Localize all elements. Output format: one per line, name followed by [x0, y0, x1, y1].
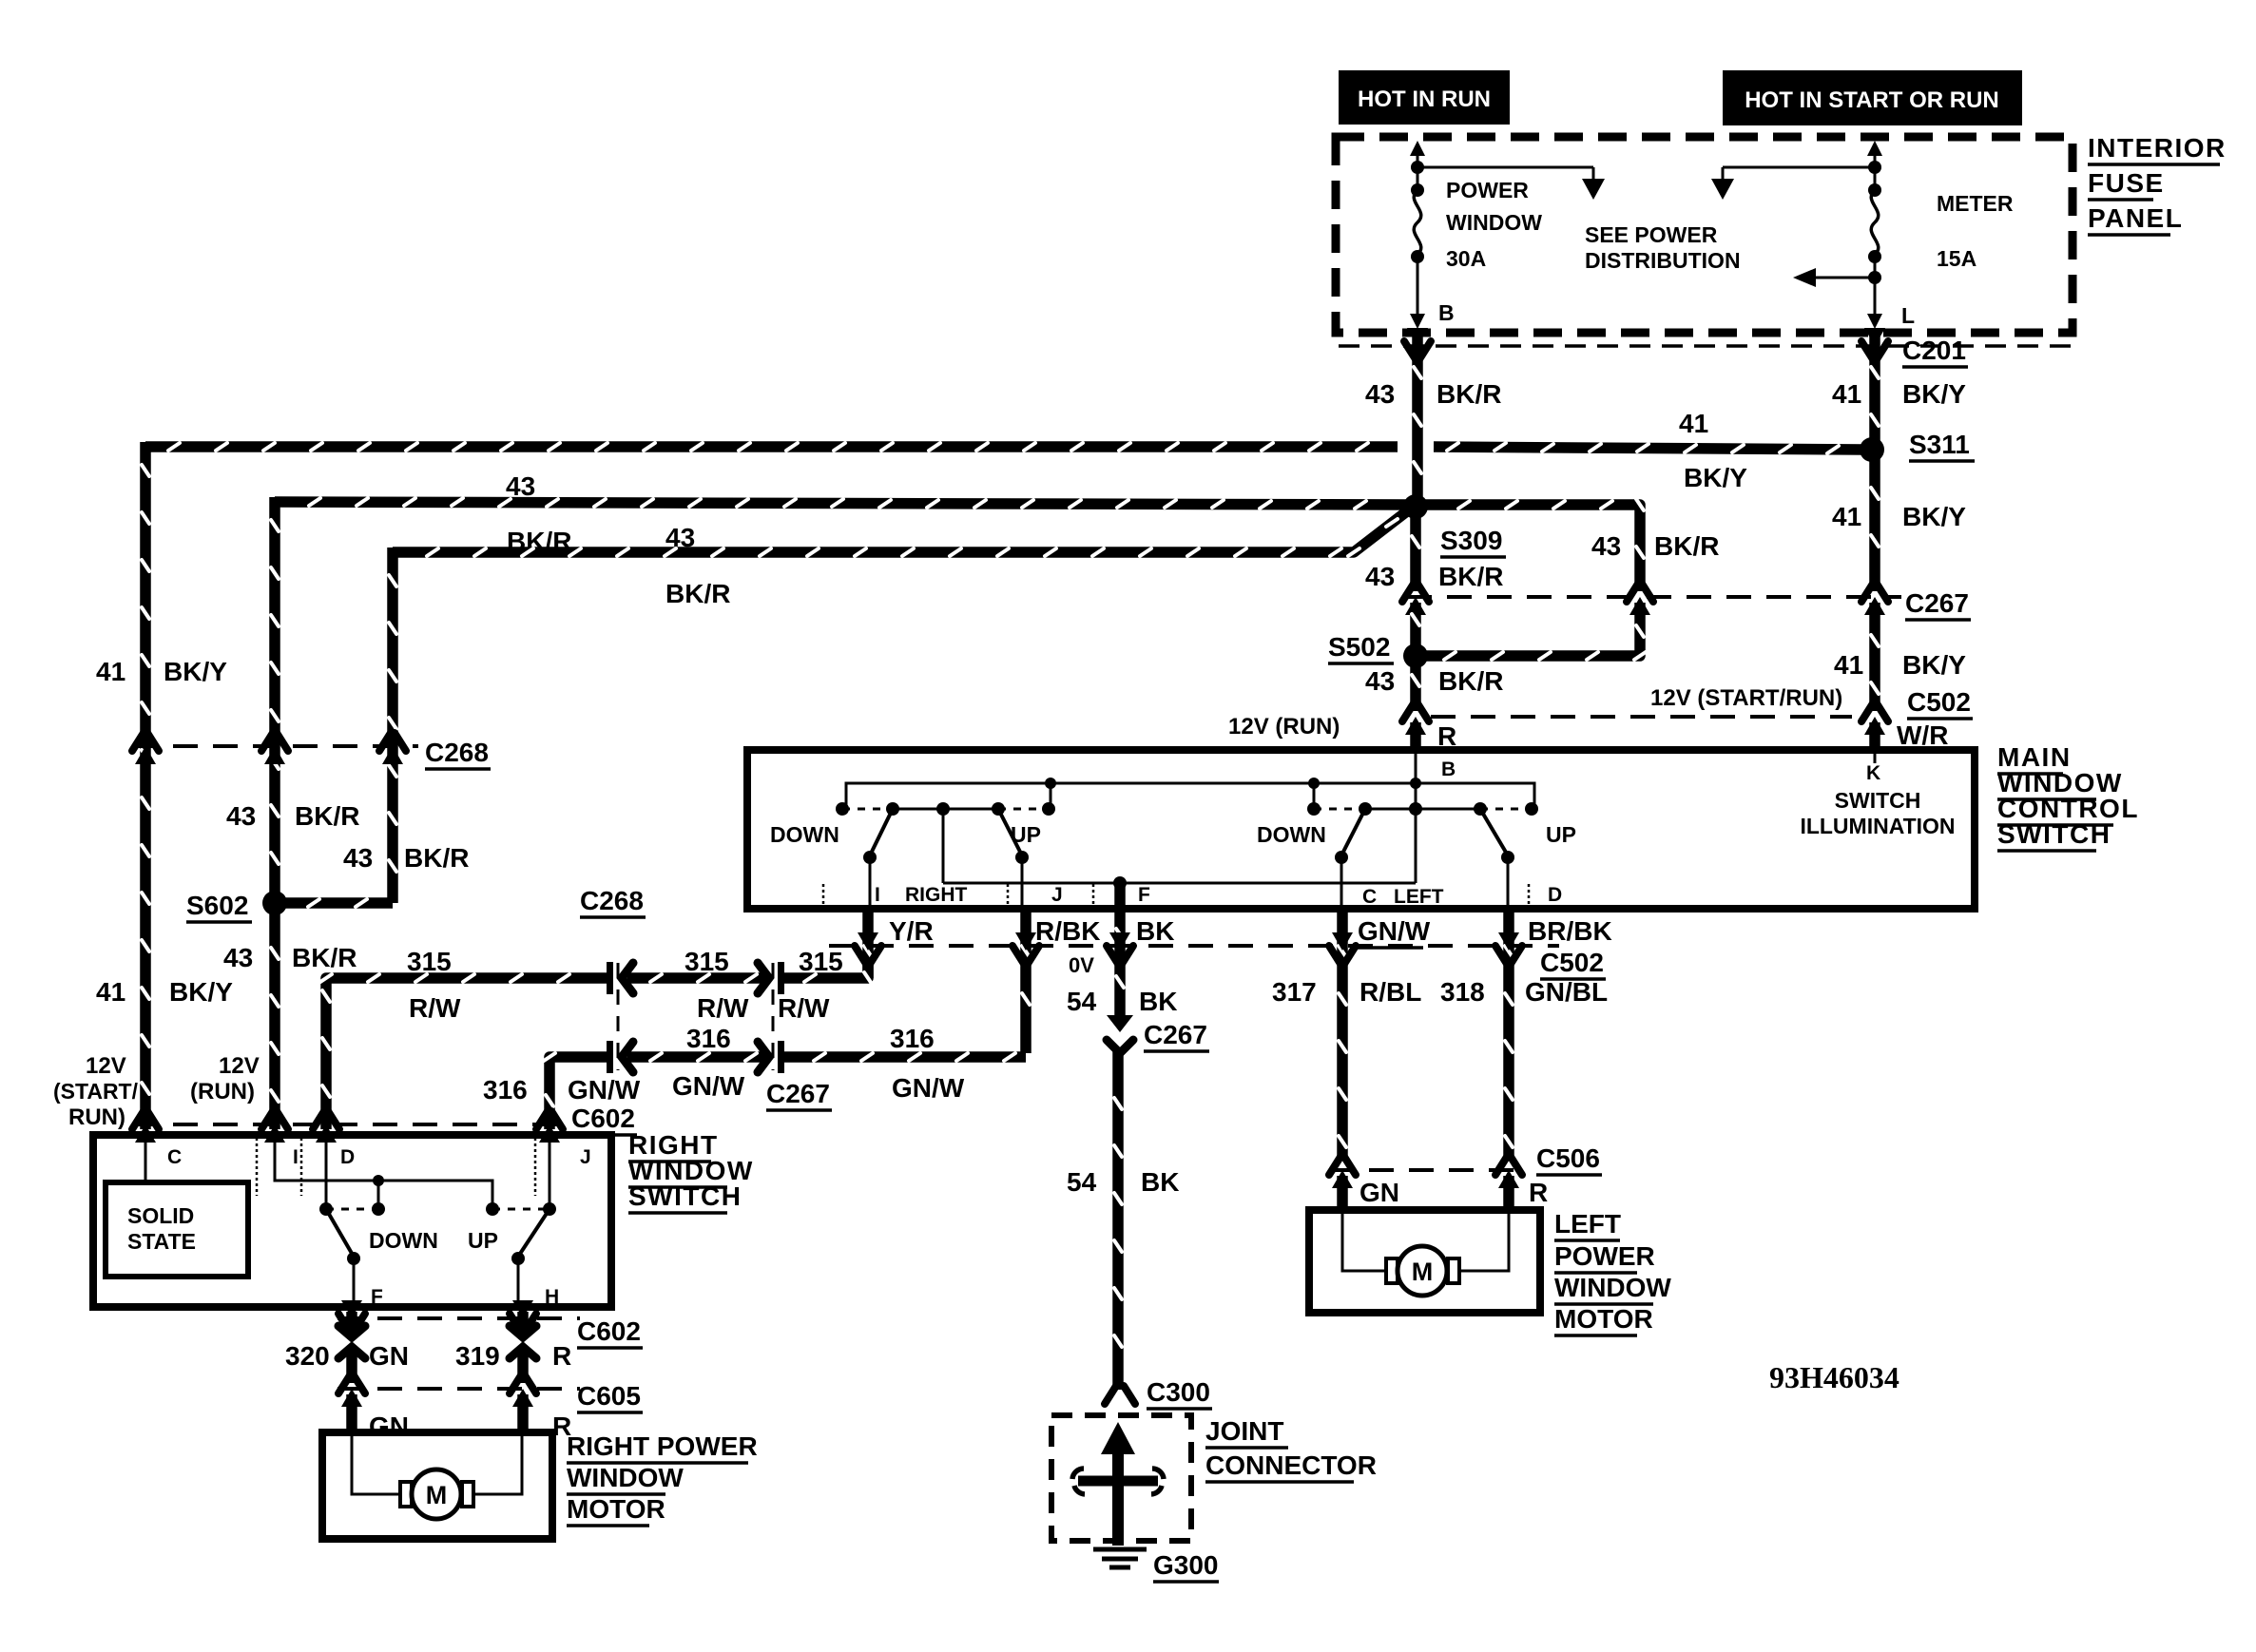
svg-text:43: 43 [1591, 531, 1621, 561]
connector C605 pin F [338, 1375, 365, 1393]
pin D internal [325, 1139, 328, 1209]
rocker UP right-window [998, 809, 1022, 855]
wire GN into right motor [346, 1394, 357, 1436]
connector C267 on 54 BK [1107, 1015, 1133, 1032]
wire R/BK pin J [1022, 909, 1030, 1053]
svg-text:BK/R: BK/R [1654, 531, 1719, 561]
wire 319 R b [517, 1350, 529, 1383]
rocker DOWN right switch [326, 1209, 354, 1257]
svg-text:0V: 0V [1069, 953, 1094, 977]
svg-text:SWITCH: SWITCH [628, 1181, 742, 1211]
svg-text:54: 54 [1067, 987, 1097, 1016]
svg-text:43: 43 [1365, 562, 1395, 591]
svg-text:93H46034: 93H46034 [1769, 1360, 1899, 1394]
fuse F2 METER 15A [1867, 141, 1882, 329]
svg-text:J: J [580, 1146, 591, 1168]
svg-text:43: 43 [665, 523, 695, 552]
svg-text:CONNECTOR: CONNECTOR [1205, 1450, 1377, 1480]
wire 317 R/BL pin C [1339, 909, 1346, 1160]
switch group right-window pivot row [836, 802, 849, 816]
wire 315 R/W right [781, 962, 872, 984]
svg-text:C605: C605 [577, 1381, 641, 1411]
wire 43 BK/R vertical at x289 [271, 497, 279, 1129]
connector C268 pin 43b [379, 733, 406, 751]
right power window motor box [322, 1432, 552, 1539]
connector C267 pin (43 BK/R) [1402, 584, 1429, 602]
svg-text:DOWN: DOWN [1257, 822, 1326, 847]
svg-text:W/R: W/R [1897, 720, 1948, 750]
connector C602 pin J [536, 1111, 563, 1129]
svg-text:WINDOW: WINDOW [1446, 210, 1542, 235]
connector C602 pin F [341, 1300, 362, 1318]
svg-text:54: 54 [1067, 1167, 1097, 1197]
wire 41 BK/Y long horizontal right segment [1434, 443, 1863, 453]
svg-text:LEFT: LEFT [1554, 1209, 1621, 1239]
svg-text:HOT IN START OR RUN: HOT IN START OR RUN [1745, 87, 1999, 113]
svg-text:319: 319 [455, 1341, 500, 1371]
svg-text:WINDOW: WINDOW [567, 1463, 684, 1492]
svg-text:41: 41 [1679, 409, 1708, 438]
svg-text:RIGHT POWER: RIGHT POWER [567, 1431, 758, 1461]
svg-text:RUN): RUN) [68, 1105, 125, 1130]
svg-text:316: 316 [890, 1024, 935, 1053]
wire 316 GN/W middle [627, 1053, 764, 1061]
svg-text:41: 41 [96, 977, 125, 1007]
svg-text:MOTOR: MOTOR [1554, 1304, 1653, 1334]
connector C502 pin C [1332, 932, 1353, 951]
svg-text:R/W: R/W [409, 993, 461, 1023]
svg-text:JOINT: JOINT [1205, 1416, 1283, 1446]
connector C602 pin D [313, 1111, 339, 1129]
connector C201 pin L [1864, 328, 1885, 346]
svg-text:GN/W: GN/W [892, 1073, 965, 1103]
svg-text:INTERIOR: INTERIOR [2088, 133, 2227, 163]
connector C267 pin (loop) [1627, 584, 1653, 602]
svg-text:BK/R: BK/R [1437, 379, 1501, 409]
wire 41 BK/Y S311 to C267 [1871, 455, 1879, 591]
connector C502 pin I [858, 932, 878, 951]
joint connector arrow [1101, 1422, 1135, 1454]
wire 54 BK joint internal [1112, 1447, 1124, 1546]
connector C267 pin (41 BK/Y) [1861, 584, 1888, 602]
svg-text:MOTOR: MOTOR [567, 1494, 665, 1524]
svg-text:J: J [1051, 884, 1063, 906]
joint connector box [1051, 1415, 1191, 1541]
svg-text:GN/W: GN/W [1358, 916, 1431, 946]
svg-text:(START/: (START/ [53, 1079, 139, 1104]
svg-text:318: 318 [1440, 977, 1485, 1007]
wire 43 BK/R S502 to C502 [1412, 662, 1419, 711]
svg-text:C602: C602 [571, 1104, 635, 1133]
rocker DOWN right-window [870, 809, 893, 855]
svg-text:C300: C300 [1147, 1377, 1210, 1407]
main switch internal bus [846, 783, 1534, 809]
common line to pin F [942, 809, 945, 883]
svg-text:R: R [1529, 1178, 1548, 1207]
svg-text:R/W: R/W [778, 993, 830, 1023]
left motor M symbol [1386, 1258, 1398, 1283]
svg-text:H: H [545, 1286, 559, 1308]
svg-text:POWER: POWER [1554, 1241, 1655, 1271]
wire 41 BK/Y left vertical [142, 442, 149, 1129]
main window control switch box [747, 750, 1975, 909]
svg-text:43: 43 [223, 943, 253, 972]
svg-text:B: B [1438, 300, 1455, 325]
svg-text:BK/R: BK/R [404, 843, 469, 873]
svg-text:316: 316 [483, 1075, 528, 1105]
wire 320 GN b [346, 1350, 357, 1383]
svg-text:SWITCH: SWITCH [1997, 819, 2111, 849]
wire 43 BK/R loop lower [1418, 603, 1646, 660]
pin divider ticks main switch [822, 884, 825, 907]
svg-text:SEE POWER: SEE POWER [1585, 222, 1718, 247]
splice S311 [1860, 437, 1884, 462]
wire 43 BK/R horizontal 3 [393, 508, 1412, 556]
label HOT IN START OR RUN [1723, 70, 2022, 125]
wire S602 jumper [280, 899, 393, 907]
solid state box [106, 1182, 248, 1277]
pin J internal [549, 1139, 551, 1209]
svg-text:D: D [340, 1146, 355, 1168]
svg-text:C: C [167, 1146, 182, 1168]
wire W/R into pin K [1869, 722, 1880, 753]
pin I internal [275, 1139, 492, 1209]
svg-text:DOWN: DOWN [369, 1228, 438, 1253]
svg-text:43: 43 [506, 471, 535, 501]
svg-text:GN: GN [369, 1412, 409, 1441]
svg-text:LEFT: LEFT [1394, 886, 1444, 908]
svg-text:R/BL: R/BL [1359, 977, 1421, 1007]
svg-text:G300: G300 [1153, 1550, 1219, 1580]
svg-text:DOWN: DOWN [770, 822, 839, 847]
wire 319 R [517, 1312, 529, 1335]
svg-text:B: B [1441, 759, 1456, 780]
svg-text:C267: C267 [766, 1079, 830, 1108]
right window switch pivot row [319, 1202, 333, 1216]
rocker UP left-window [1480, 809, 1508, 855]
wire 54 BK pin F upper [1116, 887, 1124, 1017]
wire 315 R/W left [320, 974, 608, 1129]
svg-text:D: D [1548, 884, 1562, 906]
interior fuse panel box [1336, 137, 2073, 333]
switch group left-window pivot row [1307, 802, 1321, 816]
connector C605 line [337, 1387, 580, 1391]
connector C602 line bottom [337, 1316, 580, 1320]
connector C201 line [1339, 344, 2071, 348]
svg-text:12V: 12V [86, 1053, 126, 1079]
left power window motor box [1309, 1210, 1540, 1313]
connector C300 on 54 BK [1105, 1386, 1135, 1404]
wire 43 BK/R C267 to S502 [1412, 603, 1419, 650]
svg-text:GN/W: GN/W [672, 1071, 745, 1101]
connector C267 on 315 [778, 962, 784, 994]
wire GN into left motor [1337, 1176, 1348, 1214]
svg-text:41: 41 [1832, 502, 1861, 531]
right motor M symbol [400, 1482, 412, 1507]
svg-text:I: I [875, 884, 880, 906]
rocker UP right switch [518, 1209, 550, 1257]
wire 43 BK/R from fuse B [1414, 335, 1421, 500]
splice S502 [1403, 644, 1428, 668]
svg-text:HOT IN RUN: HOT IN RUN [1358, 86, 1491, 112]
svg-text:C502: C502 [1540, 948, 1604, 977]
svg-text:BK/R: BK/R [1438, 666, 1503, 696]
label HOT IN RUN [1339, 70, 1510, 125]
wire R into right motor [517, 1394, 529, 1436]
svg-text:Y/R: Y/R [889, 916, 934, 946]
svg-text:UP: UP [468, 1228, 498, 1253]
rocker DOWN left-window [1341, 809, 1365, 855]
svg-text:C602: C602 [577, 1316, 641, 1346]
svg-text:R: R [552, 1341, 571, 1371]
svg-text:317: 317 [1272, 977, 1317, 1007]
left motor inner [1342, 1214, 1384, 1271]
svg-text:BK/Y: BK/Y [169, 977, 233, 1007]
wire 43 BK/R vertical at x413 [389, 547, 396, 903]
svg-text:12V (START/RUN): 12V (START/RUN) [1650, 685, 1842, 711]
svg-text:BK/R: BK/R [295, 801, 359, 831]
dashed connector C267 inline [772, 963, 775, 1070]
svg-text:R/BK: R/BK [1035, 916, 1100, 946]
wire R into pin B [1410, 722, 1421, 753]
svg-text:BK/Y: BK/Y [1684, 463, 1747, 492]
svg-text:43: 43 [226, 801, 256, 831]
svg-text:41: 41 [96, 657, 125, 686]
splice S602 [262, 891, 287, 915]
connector C602 pin I [261, 1111, 288, 1129]
svg-text:RIGHT: RIGHT [905, 884, 968, 906]
connector C268 pin 41 [132, 733, 159, 751]
svg-text:12V (RUN): 12V (RUN) [1228, 714, 1340, 740]
svg-text:BK/Y: BK/Y [1902, 502, 1966, 531]
svg-text:C267: C267 [1905, 588, 1969, 618]
svg-text:S311: S311 [1909, 430, 1970, 459]
svg-text:GN: GN [1359, 1178, 1399, 1207]
svg-text:BK: BK [1141, 1167, 1179, 1197]
svg-text:R/W: R/W [697, 993, 749, 1023]
wire 318 GN/BL pin D [1505, 909, 1513, 1160]
svg-text:S309: S309 [1440, 526, 1502, 555]
svg-text:C: C [1362, 886, 1377, 908]
svg-text:DISTRIBUTION: DISTRIBUTION [1585, 248, 1741, 273]
connector C201 pin B [1407, 328, 1428, 346]
wire R into left motor [1503, 1176, 1514, 1214]
wire 315 R/W middle [627, 974, 764, 982]
svg-text:15A: 15A [1937, 246, 1976, 271]
svg-text:S502: S502 [1328, 632, 1390, 662]
splice S309 [1403, 494, 1428, 519]
wire 320 GN [346, 1312, 357, 1335]
svg-text:SWITCH: SWITCH [1835, 788, 1921, 813]
svg-text:12V: 12V [219, 1053, 260, 1079]
svg-text:C268: C268 [580, 886, 644, 915]
svg-text:POWER: POWER [1446, 178, 1529, 202]
wire 316 GN/W left [544, 1053, 608, 1129]
svg-text:315: 315 [407, 947, 452, 976]
connector C602 pin C [132, 1111, 159, 1129]
svg-text:ILLUMINATION: ILLUMINATION [1800, 814, 1955, 838]
svg-text:315: 315 [799, 947, 843, 976]
right window switch box [93, 1135, 611, 1307]
connector C506 pin GN [1329, 1157, 1356, 1175]
svg-text:41: 41 [1834, 650, 1863, 680]
wire meter lower branch left arrow [1793, 268, 1875, 287]
svg-text:M: M [426, 1481, 448, 1509]
svg-text:C267: C267 [1144, 1020, 1207, 1049]
wire 43 BK/R loop upper [1421, 499, 1644, 591]
svg-text:S602: S602 [186, 891, 248, 920]
svg-text:320: 320 [285, 1341, 330, 1371]
wire 43 BK/R horizontal 2 [275, 498, 1408, 509]
connector C502 pin R [1402, 703, 1429, 721]
svg-text:F: F [371, 1286, 383, 1308]
svg-text:FUSE: FUSE [2088, 168, 2165, 198]
svg-text:SOLID: SOLID [127, 1203, 194, 1228]
svg-text:C506: C506 [1536, 1143, 1600, 1173]
connector C502 line right [1431, 715, 1852, 719]
connector C268 on 315 [607, 962, 613, 994]
svg-text:WINDOW: WINDOW [1554, 1273, 1671, 1302]
svg-text:(RUN): (RUN) [190, 1079, 255, 1105]
connector C502 pin D [1498, 932, 1519, 951]
svg-text:BK/Y: BK/Y [1902, 650, 1966, 680]
connector C502 pin J [1015, 932, 1036, 951]
ground G300 [1093, 1549, 1147, 1567]
svg-text:315: 315 [685, 947, 729, 976]
svg-text:43: 43 [1365, 379, 1395, 409]
pin C internal [145, 1139, 147, 1182]
wire 41 BK/Y C267 to C502 [1871, 603, 1879, 711]
wire 41 BK/Y long horizontal left segment [145, 443, 1398, 451]
connector C605 pin H [510, 1375, 536, 1393]
svg-text:L: L [1901, 303, 1915, 328]
dashed connector C268 inline [617, 963, 620, 1070]
connector C268 line [133, 744, 418, 748]
svg-text:BK/R: BK/R [665, 579, 730, 608]
connector C605 inline H [514, 1337, 531, 1347]
pin B stub [1415, 754, 1417, 783]
svg-text:M: M [1412, 1258, 1434, 1286]
svg-text:C502: C502 [1907, 687, 1971, 717]
svg-text:41: 41 [1832, 379, 1861, 409]
wire 41 BK/Y from fuse L [1871, 335, 1879, 445]
svg-text:BK/Y: BK/Y [164, 657, 227, 686]
svg-text:30A: 30A [1446, 246, 1486, 271]
connector C502 pin F [1109, 932, 1130, 951]
svg-text:BK/R: BK/R [1438, 562, 1503, 591]
svg-text:BK/R: BK/R [292, 943, 357, 972]
svg-text:UP: UP [1546, 822, 1576, 847]
svg-text:STATE: STATE [127, 1229, 196, 1254]
connector C602 line top [133, 1123, 566, 1126]
svg-text:BR/BK: BR/BK [1528, 916, 1612, 946]
connector C268 pin 43a [261, 733, 288, 751]
svg-text:PANEL: PANEL [2088, 203, 2183, 233]
connector C605 inline F [343, 1337, 360, 1347]
svg-text:BK: BK [1136, 916, 1174, 946]
svg-text:BK/Y: BK/Y [1902, 379, 1966, 409]
svg-text:C268: C268 [425, 738, 489, 767]
svg-text:GN/BL: GN/BL [1525, 977, 1608, 1007]
svg-text:316: 316 [686, 1024, 731, 1053]
svg-text:METER: METER [1937, 191, 2014, 216]
connector C502 line main [829, 944, 1559, 948]
svg-text:BK: BK [1139, 987, 1177, 1016]
wire meter branch left arrow [1711, 167, 1875, 200]
svg-text:C201: C201 [1902, 336, 1966, 365]
svg-text:I: I [293, 1146, 299, 1168]
pin divider ticks right switch [256, 1138, 259, 1196]
svg-text:K: K [1866, 762, 1880, 784]
wire fuse branch to SEE POWER DISTRIBUTION [1417, 167, 1605, 200]
fuse F1 POWER WINDOW 30A [1410, 141, 1425, 329]
wire Y/R pin I [864, 909, 872, 978]
connector C267 line [1407, 595, 1901, 599]
svg-text:43: 43 [343, 843, 373, 873]
svg-text:GN/W: GN/W [568, 1075, 641, 1105]
svg-text:F: F [1138, 884, 1150, 906]
joint connector cross bar [1078, 1476, 1158, 1487]
svg-text:GN: GN [369, 1341, 409, 1371]
connector C506 line [1329, 1168, 1521, 1172]
connector C502 pin K [1861, 703, 1888, 721]
connector C602 pin H [512, 1300, 533, 1318]
svg-text:43: 43 [1365, 666, 1395, 696]
wire 43 BK/R S309 to C267 [1412, 513, 1419, 591]
right motor inner [352, 1436, 400, 1494]
wire 54 BK lower [1114, 1051, 1122, 1390]
connector C506 pin R [1495, 1157, 1522, 1175]
svg-text:UP: UP [1011, 822, 1041, 847]
wire 316 GN/W right [781, 1053, 1026, 1061]
